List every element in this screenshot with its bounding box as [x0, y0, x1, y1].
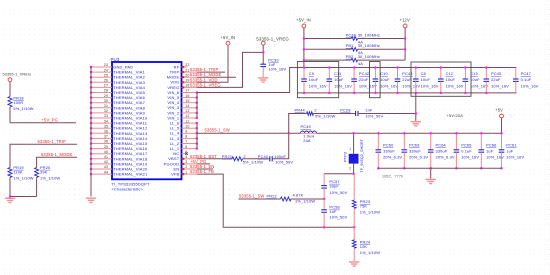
pin 7 LL_2 [182, 143, 197, 145]
capacitor PC28 [355, 111, 357, 116]
pin 3 PGOOD [182, 163, 197, 165]
svg-text:20: 20 [185, 73, 189, 77]
svg-text:39K: 39K [40, 169, 48, 174]
svg-text:53355-1_TRIP: 53355-1_TRIP [38, 139, 67, 144]
svg-text:8: 8 [185, 135, 187, 139]
capacitor PC39 [260, 63, 266, 65]
svg-text:10%_16V: 10%_16V [470, 83, 488, 88]
port +5V [500, 114, 504, 118]
wire input ground tap [415, 93, 417, 121]
svg-text:20%_6.3V: 20%_6.3V [383, 154, 402, 159]
svg-text:17: 17 [185, 89, 189, 93]
IC PU3 TI_TPS53355DQPT body [112, 62, 182, 179]
wire VREG port drop [262, 45, 264, 64]
svg-text:6: 6 [185, 145, 187, 149]
svg-text:PB2: PB2 [346, 54, 354, 59]
svg-text:16: 16 [185, 94, 189, 98]
svg-text:330uF: 330uF [383, 148, 395, 153]
capacitor C11 [328, 68, 330, 80]
wire snubber from SW [289, 114, 307, 134]
svg-text:10%_16V: 10%_16V [421, 83, 439, 88]
svg-text:42: 42 [104, 160, 108, 164]
pin 2 EN [182, 168, 197, 170]
svg-text:C9: C9 [309, 71, 314, 76]
pin 1 VFB [182, 173, 197, 175]
pin 26 THERMAL_VIA3 [91, 81, 112, 83]
svg-text:330uF: 330uF [409, 148, 421, 153]
svg-text:40: 40 [104, 150, 108, 154]
svg-text:53355-1_FB: 53355-1_FB [190, 169, 214, 174]
svg-text:21: 21 [185, 68, 189, 72]
svg-text:+5V_IN: +5V_IN [221, 35, 236, 40]
svg-text:20%_6.3V: 20%_6.3V [409, 154, 428, 159]
capacitor PC60 [377, 133, 379, 150]
wire net 53355-1_SW main [197, 132, 301, 134]
capacitor C9 [303, 68, 305, 80]
svg-text:10%_16V: 10%_16V [491, 83, 509, 88]
svg-text:13: 13 [185, 109, 189, 113]
pin 18 VREG [182, 86, 197, 88]
wire PR21 to PC40 [243, 158, 270, 160]
svg-text:30_100MHz: 30_100MHz [358, 54, 380, 59]
svg-text:25: 25 [104, 73, 108, 77]
svg-text:100R: 100R [13, 100, 23, 105]
svg-text:53355-1_SW: 53355-1_SW [239, 193, 264, 198]
pin 8 LL_3 [182, 137, 197, 139]
svg-text:<Characteristic>: <Characteristic> [112, 187, 144, 192]
svg-text:10uF: 10uF [446, 77, 456, 82]
pin 43 THERMAL_VIA20 [91, 168, 112, 170]
svg-text:PR22: PR22 [267, 193, 277, 198]
svg-text:105C, 777h: 105C, 777h [382, 174, 403, 178]
capacitor C13 [464, 68, 466, 80]
capacitor PC47 [515, 68, 517, 80]
pin 20 MODE [182, 76, 197, 78]
svg-text:10%_16V: 10%_16V [506, 154, 524, 159]
port +12V [403, 24, 407, 28]
pin 33 THERMAL_VIA10 [91, 117, 112, 119]
pin 41 THERMAL_VIA18 [91, 158, 112, 160]
pin 4 VBST [182, 158, 197, 160]
svg-text:THERMAL_VIA21: THERMAL_VIA21 [113, 172, 148, 177]
ground input caps [411, 121, 421, 122]
svg-text:14: 14 [185, 104, 189, 108]
capacitor PC40 [269, 156, 271, 161]
svg-text:10%_16V: 10%_16V [461, 154, 479, 159]
svg-text:1uF: 1uF [506, 148, 514, 153]
DNI box 1 around C9 C11 [297, 62, 338, 98]
svg-text:PR44: PR44 [295, 107, 306, 112]
svg-text:53355-1_VREG: 53355-1_VREG [190, 82, 221, 87]
wire net 53355-1_MODE left [37, 157, 77, 167]
svg-text:53355-1_VREG: 53355-1_VREG [256, 37, 289, 42]
pin 17 VIN_6 [182, 92, 197, 94]
svg-text:28: 28 [104, 89, 108, 93]
port +5V_IN top [302, 24, 306, 28]
wire net +5V_PG left [10, 122, 76, 124]
pin 15 VIN_4 [182, 102, 197, 104]
svg-text:27: 27 [104, 84, 108, 88]
svg-text:22uF: 22uF [491, 77, 501, 82]
svg-text:PTP3: PTP3 [344, 152, 348, 162]
svg-text:15: 15 [185, 99, 189, 103]
svg-text:1%_1/10W: 1%_1/10W [13, 175, 33, 180]
pin 28 THERMAL_VIA5 [91, 92, 112, 94]
svg-text:23: 23 [104, 63, 108, 67]
pin 23 GND_PAD [91, 66, 112, 68]
pin 9 LL_4 [182, 132, 197, 134]
svg-text:39pF: 39pF [329, 183, 339, 188]
wire PR44 to PC28 [314, 113, 356, 115]
svg-text:33: 33 [104, 114, 108, 118]
wire VIN from chip [197, 68, 517, 93]
svg-text:35: 35 [104, 124, 108, 128]
pin 5 NC [182, 153, 187, 155]
capacitor PC63 [403, 133, 405, 150]
pin 11 LL_6 [182, 122, 197, 124]
svg-text:24: 24 [104, 68, 108, 72]
wire net 53355-1_TRIP at pin 21 [197, 71, 225, 73]
svg-text:10%_16V: 10%_16V [359, 83, 377, 88]
pin 10 LL_5 [182, 127, 197, 129]
svg-text:PU3: PU3 [111, 57, 120, 62]
port +5V_IN left [226, 41, 230, 45]
svg-text:10uF: 10uF [380, 77, 390, 82]
wire output ground tap [430, 168, 432, 178]
svg-text:+5V: +5V [495, 108, 503, 113]
svg-text:22: 22 [185, 63, 189, 67]
svg-text:30: 30 [104, 99, 108, 103]
svg-text:2: 2 [243, 154, 245, 159]
ground output caps [426, 179, 436, 180]
svg-text:30_100MHz: 30_100MHz [358, 43, 380, 48]
resistor PR44 [307, 112, 314, 116]
pin 42 THERMAL_VIA19 [91, 163, 112, 165]
pin 35 THERMAL_VIA12 [91, 127, 112, 129]
wire LL pin bus [196, 123, 198, 149]
pin 25 THERMAL_VIA2 [91, 76, 112, 78]
svg-text:11: 11 [185, 119, 189, 123]
svg-text:PC63: PC63 [409, 142, 419, 147]
wire input ground rail [298, 92, 517, 94]
svg-text:PC61: PC61 [506, 142, 516, 147]
svg-text:4A: 4A [358, 61, 363, 66]
svg-text:C11: C11 [334, 71, 341, 76]
capacitor PC44 [397, 68, 399, 80]
svg-text:10%_16V: 10%_16V [446, 83, 464, 88]
capacitor C12 [440, 68, 442, 80]
svg-text:2: 2 [185, 165, 187, 169]
svg-text:+5V_IN: +5V_IN [296, 17, 311, 22]
wire net 53355-1_FB [197, 174, 354, 227]
wire output ground rail [378, 167, 501, 169]
svg-text:PC28: PC28 [340, 107, 350, 112]
svg-text:44: 44 [104, 170, 108, 174]
svg-text:1: 1 [349, 147, 351, 151]
DNI box 2 around C10 [370, 62, 381, 98]
svg-text:18: 18 [185, 84, 189, 88]
svg-text:10%_16V: 10%_16V [521, 83, 539, 88]
svg-text:29: 29 [104, 94, 108, 98]
svg-text:PR21: PR21 [222, 154, 232, 159]
svg-text:39: 39 [104, 145, 108, 149]
svg-text:4: 4 [185, 155, 187, 159]
capacitor PC57 [323, 174, 325, 186]
svg-text:TP_50SQ2_SHORT: TP_50SQ2_SHORT [360, 138, 364, 172]
capacitor PC65 [455, 133, 457, 150]
pin 37 THERMAL_VIA14 [91, 137, 112, 139]
svg-text:43: 43 [104, 165, 108, 169]
capacitor C10 [374, 68, 376, 80]
svg-text:20%_6.3V: 20%_6.3V [436, 154, 455, 159]
svg-text:1nF: 1nF [365, 107, 373, 112]
svg-text:53355-1_BST: 53355-1_BST [190, 154, 217, 159]
pin 34 THERMAL_VIA11 [91, 122, 112, 124]
svg-text:12: 12 [185, 114, 189, 118]
pin 27 THERMAL_VIA4 [91, 86, 112, 88]
ferrite bead PC38 [304, 38, 351, 40]
pin 22 RF [182, 66, 188, 68]
svg-text:PC44: PC44 [402, 71, 413, 76]
svg-text:7: 7 [185, 140, 187, 144]
resistor PR24 [353, 227, 355, 240]
pin 36 THERMAL_VIA13 [91, 132, 112, 134]
svg-text:38: 38 [104, 140, 108, 144]
pin 21 TRIP [182, 71, 197, 73]
no-connect X on pin 5 NC [185, 152, 188, 155]
svg-text:10%_16V: 10%_16V [268, 67, 286, 72]
svg-text:0.1uF: 0.1uF [521, 77, 532, 82]
svg-text:32: 32 [104, 109, 108, 113]
svg-text:37: 37 [104, 135, 108, 139]
wire PR22 to PC57 node [291, 198, 324, 200]
ground PR24 [349, 261, 359, 262]
svg-text:330uF: 330uF [436, 148, 448, 153]
svg-text:PC66: PC66 [486, 142, 496, 147]
wire +5V drop [501, 118, 503, 134]
wire PR20 to ground node [10, 196, 37, 198]
svg-text:53355-1_SW: 53355-1_SW [205, 127, 230, 132]
capacitor C8 [415, 68, 417, 80]
svg-text:4.87K: 4.87K [293, 193, 304, 198]
svg-text:10%_16V: 10%_16V [334, 83, 352, 88]
svg-text:+12V: +12V [400, 17, 410, 22]
pin 29 THERMAL_VIA6 [91, 97, 112, 99]
wire net 53355-1_VREG to port [197, 52, 263, 87]
svg-text:2: 2 [314, 107, 316, 112]
wire +5V_IN drop [303, 28, 305, 68]
svg-text:22uF: 22uF [359, 77, 369, 82]
svg-text:5%_1/10W: 5%_1/10W [315, 114, 335, 119]
svg-text:PC60: PC60 [383, 142, 394, 147]
pin 14 VIN_3 [182, 107, 197, 109]
svg-text:10uF: 10uF [309, 77, 319, 82]
svg-text:53355-1_VREG: 53355-1_VREG [3, 72, 32, 76]
svg-text:0.1uF: 0.1uF [461, 148, 472, 153]
svg-text:5%_1/10W: 5%_1/10W [243, 160, 263, 165]
svg-text:PC42: PC42 [359, 71, 369, 76]
svg-text:PC65: PC65 [461, 142, 471, 147]
svg-text:C12: C12 [446, 71, 454, 76]
pin 44 THERMAL_VIA21 [91, 173, 112, 175]
wire net +5V_PG at pin 3 [197, 163, 210, 165]
svg-text:PC64: PC64 [436, 142, 447, 147]
svg-text:19: 19 [185, 79, 189, 83]
wire net 53355-1_EN at pin 2 [197, 168, 213, 170]
ground chip pad [86, 198, 96, 199]
svg-text:1%_1/10W: 1%_1/10W [40, 175, 60, 180]
pin 6 LL_1 [182, 148, 197, 150]
svg-text:PC38: PC38 [346, 32, 356, 37]
svg-text:1%_1/10W: 1%_1/10W [360, 210, 380, 215]
svg-text:10: 10 [185, 124, 189, 128]
resistor PR19 [8, 168, 12, 178]
wire +12V drop [404, 28, 406, 61]
resistor PR20 [35, 168, 39, 178]
capacitor PC61 [501, 133, 503, 150]
DNI box 3 around C8 C12 C13 [411, 62, 471, 96]
svg-text:C10: C10 [380, 71, 388, 76]
wire SW output rail [317, 132, 502, 134]
svg-text:PC40: PC40 [258, 154, 269, 159]
wire net 53355-1_SW injection [239, 198, 281, 200]
svg-text:75K: 75K [360, 204, 368, 209]
svg-text:PC47: PC47 [521, 71, 531, 76]
pin 16 VIN_5 [182, 97, 197, 99]
svg-text:31: 31 [104, 104, 108, 108]
svg-text:+5V/20A: +5V/20A [447, 113, 464, 118]
port 53355-1_VREG top [261, 41, 265, 45]
capacitor PC64 [430, 133, 432, 150]
wire SW to PTP3 [353, 133, 355, 154]
wire PC28 to input ground [358, 113, 416, 115]
pin 30 THERMAL_VIA7 [91, 102, 112, 104]
pin 24 THERMAL_VIA1 [91, 71, 112, 73]
pin 32 THERMAL_VIA9 [91, 112, 112, 114]
capacitor PC45 [485, 68, 487, 80]
svg-text:2: 2 [349, 166, 351, 170]
svg-text:24A: 24A [303, 138, 311, 143]
wire net 53355-1_BST [197, 158, 232, 160]
pin 13 VIN_2 [182, 112, 197, 114]
svg-text:53355-1_MODE: 53355-1_MODE [41, 152, 73, 157]
resistor PR23 [353, 174, 355, 200]
svg-text:10%_16V: 10%_16V [309, 83, 327, 88]
pin 40 THERMAL_VIA17 [91, 153, 112, 155]
svg-text:1: 1 [185, 170, 187, 174]
svg-text:41: 41 [104, 155, 108, 159]
svg-text:34: 34 [104, 119, 108, 123]
svg-text:10%_50V: 10%_50V [329, 214, 347, 219]
resistor PR18 [9, 81, 11, 96]
capacitor PC42 [353, 68, 355, 80]
capacitor PC66 [480, 133, 482, 150]
svg-text:C8: C8 [421, 71, 426, 76]
svg-text:1uF: 1uF [486, 148, 494, 153]
resistor PR21 [232, 157, 243, 161]
svg-text:10%_50V: 10%_50V [365, 114, 383, 119]
pin 39 THERMAL_VIA16 [91, 148, 112, 150]
wire VIN pin bus [196, 93, 198, 119]
svg-text:VFB: VFB [171, 172, 179, 177]
wire net 53355-1_VDD to +5V_IN port [197, 45, 228, 82]
wire PTP3 to node A [353, 164, 355, 174]
svg-text:10%_16V: 10%_16V [380, 83, 398, 88]
svg-text:10%_50V: 10%_50V [329, 190, 347, 195]
ferrite bead PB2 [304, 59, 351, 61]
pin 19 VDD [182, 81, 197, 83]
svg-text:30_100MHz: 30_100MHz [358, 32, 380, 37]
svg-text:26: 26 [104, 79, 108, 83]
wire PC40 to SW [272, 133, 289, 159]
svg-text:+5V_PG: +5V_PG [42, 117, 59, 122]
svg-text:PC45: PC45 [491, 71, 501, 76]
resistor PR22 [281, 197, 292, 201]
wire node A jog [324, 173, 354, 175]
inductor PC49 [301, 131, 317, 133]
svg-text:10%_50V: 10%_50V [275, 160, 293, 165]
ground PC39 [258, 77, 268, 78]
svg-text:10K: 10K [360, 244, 368, 249]
wire left ground bus [90, 67, 92, 197]
svg-text:3: 3 [185, 160, 187, 164]
svg-text:1%_1/10W: 1%_1/10W [360, 250, 380, 255]
capacitor PC58 [323, 199, 325, 210]
svg-text:5%_1/10W: 5%_1/10W [13, 106, 33, 111]
svg-text:36: 36 [104, 130, 108, 134]
ferrite bead PB1 [304, 48, 351, 50]
svg-text:100nF: 100nF [274, 154, 286, 159]
svg-text:9: 9 [185, 130, 187, 134]
svg-text:PB1: PB1 [346, 43, 354, 48]
svg-text:PC49: PC49 [301, 124, 311, 129]
svg-text:10uF: 10uF [421, 77, 431, 82]
wire net 53355-1_MODE at pin 20 [197, 76, 236, 78]
svg-text:110K: 110K [13, 169, 23, 174]
pin 12 VIN_1 [182, 117, 197, 119]
ground PR19 PR20 [5, 198, 15, 199]
wire net 53355-1_TRIP left [10, 144, 77, 167]
svg-text:10uF: 10uF [470, 77, 480, 82]
pin 38 THERMAL_VIA15 [91, 143, 112, 145]
pin 31 THERMAL_VIA8 [91, 107, 112, 109]
